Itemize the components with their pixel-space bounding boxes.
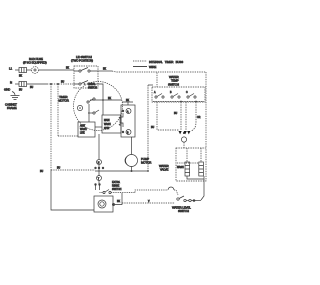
wire pump top bbox=[131, 137, 133, 155]
wire box top bbox=[122, 100, 133, 105]
svg-text:LITE: LITE bbox=[80, 133, 85, 135]
wire pump bottom bbox=[131, 167, 133, 173]
fuse F1 (if so equipped) bbox=[32, 67, 39, 74]
wire lid switch lower out bbox=[98, 84, 103, 100]
label water valve bbox=[159, 164, 169, 172]
wire cycle box out bbox=[95, 126, 102, 128]
timer circle bbox=[74, 82, 123, 131]
legend wire bbox=[133, 65, 156, 69]
svg-text:SWITCH: SWITCH bbox=[88, 88, 97, 90]
svg-text:FRAME: FRAME bbox=[7, 106, 17, 110]
svg-text:BK: BK bbox=[103, 69, 106, 71]
node N bbox=[10, 81, 12, 85]
wire pressure line bbox=[135, 187, 178, 195]
wire N bus bbox=[27, 82, 74, 90]
label water temp switch bbox=[168, 75, 179, 86]
pump motor bbox=[125, 155, 137, 167]
right rail bbox=[205, 72, 207, 148]
svg-text:BK: BK bbox=[108, 98, 111, 100]
svg-text:SPIN: SPIN bbox=[104, 128, 110, 130]
junction dots N cluster bbox=[94, 167, 104, 169]
svg-text:INTERNAL TIMER BUSS: INTERNAL TIMER BUSS bbox=[149, 60, 183, 64]
svg-text:N: N bbox=[10, 81, 12, 85]
svg-text:SWITCH: SWITCH bbox=[112, 188, 122, 191]
wire bus mid bbox=[95, 170, 148, 172]
temp switch contact 3 bbox=[186, 92, 196, 98]
timer motor M bbox=[77, 105, 82, 110]
svg-text:BK: BK bbox=[19, 76, 22, 78]
svg-text:MOTOR: MOTOR bbox=[141, 161, 151, 165]
timer contact e bbox=[93, 110, 99, 114]
svg-text:BK: BK bbox=[66, 68, 69, 70]
wire circle bottom drop bbox=[98, 134, 100, 159]
connector block BK bbox=[19, 68, 27, 78]
junction dots T cluster bbox=[94, 181, 100, 191]
svg-text:WASH: WASH bbox=[104, 123, 111, 126]
timer wire top bbox=[90, 98, 122, 100]
temp switch internal wire bbox=[153, 101, 204, 103]
right rail lower bbox=[201, 179, 204, 200]
motor symbol bbox=[98, 200, 106, 208]
timer cam labels bbox=[88, 83, 97, 90]
temp switch contact 1 bbox=[154, 91, 164, 98]
svg-text:MAIN: MAIN bbox=[104, 119, 110, 122]
terminal box bbox=[121, 105, 135, 137]
svg-text:WASH: WASH bbox=[177, 166, 184, 169]
wire lid switch upper out bbox=[98, 69, 112, 72]
svg-text:OR: OR bbox=[197, 117, 201, 119]
wire temp sw to valve left bbox=[151, 102, 179, 130]
svg-text:(TWO POSITION): (TWO POSITION) bbox=[71, 59, 93, 63]
terminal dot B bbox=[122, 131, 124, 133]
svg-text:WIRE: WIRE bbox=[149, 65, 156, 69]
label extra rinse switch bbox=[112, 181, 122, 191]
wire temp sw drop a bbox=[174, 102, 181, 130]
svg-text:L1: L1 bbox=[9, 67, 13, 71]
main contact box bbox=[102, 115, 121, 133]
timer inner vertical bbox=[102, 99, 104, 115]
timer motor box bbox=[94, 196, 113, 212]
svg-text:BU: BU bbox=[57, 168, 60, 170]
mid right rail bbox=[147, 85, 153, 172]
wire lower bus bbox=[122, 201, 175, 203]
junction dot N-left rail bbox=[50, 83, 52, 85]
wire L1 feed bbox=[15, 69, 19, 71]
left rail BU bbox=[50, 84, 52, 170]
svg-text:(IF SO EQUIPPED): (IF SO EQUIPPED) bbox=[23, 61, 47, 65]
cycle box bbox=[78, 122, 95, 137]
svg-text:BU: BU bbox=[61, 82, 64, 84]
water level switch bbox=[177, 196, 201, 202]
node GND bbox=[4, 88, 15, 96]
timer contact d bbox=[87, 98, 95, 103]
svg-text:UNBAL: UNBAL bbox=[88, 83, 96, 86]
water valve box bbox=[176, 148, 206, 181]
svg-text:WASH: WASH bbox=[80, 128, 87, 131]
connector B bbox=[126, 130, 131, 135]
lid switch SW1 bbox=[74, 66, 98, 88]
wire fuse to lid switch bbox=[39, 68, 74, 71]
valve bottom wire bbox=[187, 176, 204, 179]
mid rail bbox=[58, 84, 78, 136]
svg-text:AGIT: AGIT bbox=[80, 125, 86, 128]
label timer motor bbox=[59, 95, 69, 103]
legend timer buss bbox=[133, 60, 183, 64]
wire temp sw drop c bbox=[191, 102, 201, 131]
svg-text:BU: BU bbox=[40, 171, 43, 173]
label fuse bbox=[23, 57, 47, 65]
wire connector to wash coil bbox=[184, 142, 201, 162]
temp switch contact 2 bbox=[170, 92, 180, 98]
junction dot N-mid rail bbox=[57, 83, 59, 85]
wire N feed bbox=[15, 83, 19, 85]
svg-text:BU: BU bbox=[19, 90, 22, 92]
left rail to bottom bbox=[51, 170, 94, 210]
connector T bbox=[97, 165, 102, 181]
terminal jog wire bbox=[119, 113, 124, 127]
svg-text:BU: BU bbox=[151, 127, 154, 129]
svg-text:SWITCH: SWITCH bbox=[178, 209, 189, 213]
svg-text:BU: BU bbox=[30, 87, 33, 89]
svg-text:VALVE: VALVE bbox=[160, 168, 169, 172]
svg-text:BK: BK bbox=[126, 100, 129, 102]
inline connector pair bbox=[179, 131, 191, 142]
connector A bbox=[126, 109, 131, 114]
wire temp sw drop b bbox=[185, 102, 187, 130]
connector block BU bbox=[19, 82, 27, 92]
label water level switch bbox=[172, 206, 191, 214]
svg-text:SWITCH: SWITCH bbox=[168, 82, 179, 86]
extra rinse contact bbox=[100, 190, 136, 194]
label lid switch bbox=[71, 55, 93, 63]
rinse solenoid bbox=[177, 162, 203, 176]
svg-text:BU: BU bbox=[174, 113, 177, 115]
wire motor out bbox=[115, 193, 122, 205]
ground symbol bbox=[11, 96, 20, 100]
wire BU branch bbox=[40, 168, 95, 174]
wire to fuse bbox=[27, 69, 32, 71]
water temp switch box bbox=[152, 73, 205, 103]
label cabinet frame bbox=[5, 103, 17, 111]
timer inner rail bbox=[88, 104, 93, 122]
label pump motor bbox=[141, 157, 151, 165]
svg-text:BK: BK bbox=[117, 201, 120, 203]
node L1 bbox=[9, 67, 13, 71]
wash solenoid bbox=[185, 162, 190, 176]
svg-text:MOTOR: MOTOR bbox=[59, 99, 69, 103]
terminal dot A bbox=[122, 110, 124, 112]
timer buss top bbox=[112, 71, 206, 72]
motor terminal dot bbox=[112, 203, 115, 206]
svg-text:GND: GND bbox=[4, 88, 10, 92]
connector N bbox=[97, 160, 102, 165]
